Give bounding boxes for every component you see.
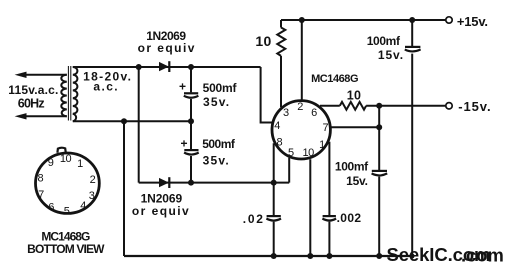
svg-text:10: 10 xyxy=(60,153,72,165)
svg-text:100mf: 100mf xyxy=(367,34,401,48)
svg-text:9: 9 xyxy=(48,157,54,169)
svg-text:or equiv: or equiv xyxy=(138,41,196,55)
svg-text:5: 5 xyxy=(64,205,70,217)
svg-text:+: + xyxy=(179,80,186,94)
svg-text:500mf: 500mf xyxy=(203,81,238,95)
svg-text:1: 1 xyxy=(319,139,325,151)
svg-text:15v.: 15v. xyxy=(378,48,404,62)
svg-text:.002: .002 xyxy=(337,211,362,225)
svg-text:4: 4 xyxy=(80,200,86,212)
svg-text:500mf: 500mf xyxy=(202,137,236,151)
svg-text:10: 10 xyxy=(302,147,314,159)
svg-text:or equiv: or equiv xyxy=(132,204,190,218)
svg-text:6: 6 xyxy=(48,201,54,213)
svg-text:100mf: 100mf xyxy=(335,159,369,173)
svg-text:10: 10 xyxy=(347,88,362,102)
svg-text:1: 1 xyxy=(77,158,83,170)
svg-text:7: 7 xyxy=(38,189,44,201)
svg-text:35v.: 35v. xyxy=(203,95,230,109)
svg-text:2: 2 xyxy=(90,174,96,186)
svg-text:a.c.: a.c. xyxy=(93,80,119,94)
svg-text:.02: .02 xyxy=(243,212,265,226)
svg-text:3: 3 xyxy=(283,107,289,119)
svg-text:60Hz: 60Hz xyxy=(18,96,45,110)
svg-text:2: 2 xyxy=(297,101,303,113)
svg-text:15v.: 15v. xyxy=(346,174,368,188)
svg-text:MC1468G: MC1468G xyxy=(311,73,358,85)
svg-text:+: + xyxy=(181,136,188,150)
svg-text:10: 10 xyxy=(255,33,271,49)
svg-text:4: 4 xyxy=(274,120,280,132)
svg-text:35v.: 35v. xyxy=(203,154,230,168)
svg-text:+15v.: +15v. xyxy=(457,14,488,29)
svg-text:7: 7 xyxy=(323,122,329,134)
svg-text:-15v.: -15v. xyxy=(458,99,491,114)
svg-text:8: 8 xyxy=(38,173,44,185)
svg-text:SeekIC.com: SeekIC.com xyxy=(387,244,491,265)
svg-text:5: 5 xyxy=(288,147,294,159)
svg-text:8: 8 xyxy=(277,137,283,149)
svg-text:BOTTOM VIEW: BOTTOM VIEW xyxy=(27,242,105,256)
svg-text:6: 6 xyxy=(311,107,317,119)
svg-text:115v.a.c.: 115v.a.c. xyxy=(8,83,58,97)
svg-text:3: 3 xyxy=(89,190,95,202)
